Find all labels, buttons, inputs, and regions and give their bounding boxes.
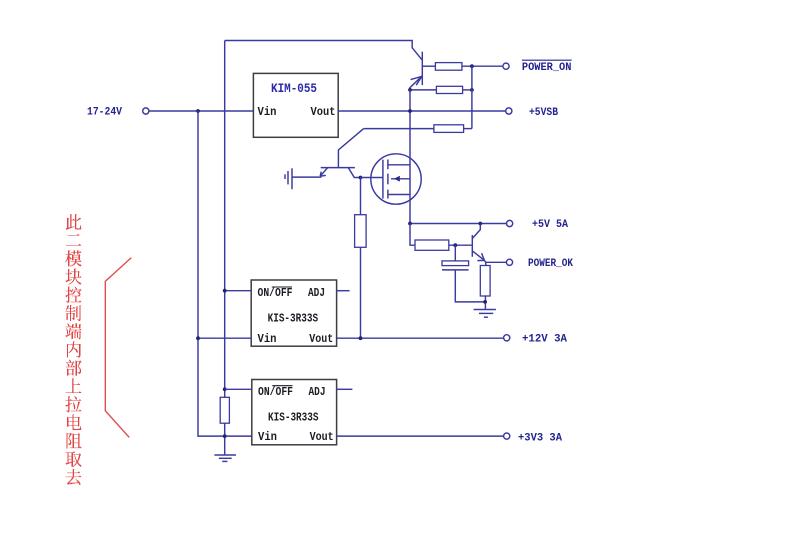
svg-text:POWER_ON: POWER_ON: [522, 62, 572, 74]
wire Q2 base path: [338, 129, 363, 168]
node Q3 collector junction: [478, 222, 482, 226]
svg-text:POWER_OK: POWER_OK: [528, 258, 573, 270]
svg-text:ADJ: ADJ: [308, 287, 325, 300]
wire KIM Vout to +5VSB: [338, 110, 506, 112]
svg-text:+5V 5A: +5V 5A: [532, 219, 568, 231]
node input junction: [196, 109, 200, 113]
resistor R2: [410, 86, 472, 93]
KIS-3R33S module U2: [251, 280, 336, 346]
wire U3 ADJ stub: [337, 388, 353, 390]
node +3V3 terminal: [504, 432, 563, 444]
hanzi 模: [66, 250, 83, 266]
ground GND3 (bottom left): [214, 455, 236, 461]
svg-text:+3V3 3A: +3V3 3A: [518, 432, 562, 444]
transistor Q2 (mid left): [320, 168, 360, 178]
svg-text:17-24V: 17-24V: [87, 107, 122, 119]
wire left vertical bus x=198: [198, 111, 252, 436]
resistor R1: [435, 63, 503, 71]
wire emitter to POWER_OK: [484, 260, 506, 262]
hanzi 制: [66, 305, 82, 321]
wire U2 Vin pin: [198, 337, 251, 339]
wire second vertical bus x=224.7 with top run: [225, 41, 422, 60]
svg-text:KIM-055: KIM-055: [271, 82, 317, 96]
wire U2 ON/OFF pin: [225, 290, 252, 292]
node U3 ON/OFF junction: [223, 387, 227, 391]
node R2 right junction: [470, 88, 474, 92]
wire U3 ON/OFF pin: [225, 388, 252, 390]
wire U3 Vout to +3V3: [337, 435, 504, 437]
ground GND2 (under R5): [474, 310, 496, 318]
node +5V terminal: [507, 219, 569, 231]
wire right vertical x=471.9: [471, 66, 473, 128]
hanzi 块: [66, 269, 82, 285]
transistor Q1 (PNP, top): [410, 52, 435, 90]
node R5 bottom junction: [483, 300, 487, 304]
hanzi 去: [66, 469, 82, 485]
node POWER_OK terminal: [506, 258, 573, 270]
node 17-24V input terminal: [87, 107, 149, 119]
KIS-3R33S module U3: [252, 380, 337, 445]
wire bus x=224.7 down to module2: [224, 41, 226, 398]
hanzi 内: [67, 342, 81, 358]
resistor R5 (vertical): [480, 262, 490, 309]
svg-text:Vout: Vout: [311, 106, 336, 119]
svg-text:Vout: Vout: [309, 333, 333, 346]
svg-text:KIS-3R33S: KIS-3R33S: [268, 412, 319, 425]
svg-text:ON/OFF: ON/OFF: [258, 287, 293, 300]
node R6 / +12V junction: [359, 336, 363, 340]
svg-text:ON/OFF: ON/OFF: [258, 386, 293, 399]
node POWER_ON junction: [470, 64, 474, 68]
hanzi 此: [66, 214, 82, 230]
hanzi 拉: [66, 396, 82, 412]
hanzi 端: [66, 323, 82, 339]
KIM-055 module U1: [253, 73, 338, 137]
hanzi 取: [66, 451, 82, 467]
svg-text:Vin: Vin: [258, 333, 277, 346]
resistor R7 (vertical on bus): [220, 397, 229, 455]
node +12V terminal: [504, 334, 568, 346]
node U3 Vin / R7 junction: [223, 434, 227, 438]
node +5VSB terminal: [506, 107, 559, 119]
wire U2 ADJ stub: [337, 290, 350, 292]
resistor R3: [364, 125, 472, 133]
hanzi 阻: [67, 433, 82, 449]
hanzi 电: [67, 414, 82, 430]
node U2 ON/OFF junction: [223, 289, 227, 293]
capacitor C1: [442, 245, 485, 302]
node U2 Vin junction: [196, 336, 200, 340]
wire input to KIM-055 Vin: [149, 110, 253, 112]
red annotation text column: [66, 214, 83, 485]
hanzi 上: [66, 378, 82, 393]
svg-text:Vin: Vin: [258, 106, 277, 119]
node M1 source junction: [408, 222, 412, 226]
node gate junction: [359, 176, 363, 180]
wire drain vertical x=410: [409, 90, 411, 224]
svg-text:KIS-3R33S: KIS-3R33S: [268, 313, 319, 326]
transistor Q3 (POWER_OK): [472, 224, 484, 261]
node Q1 emitter junction: [408, 88, 412, 92]
wire U2 Vout to +12V: [337, 337, 504, 339]
red annotation bracket: [105, 258, 131, 438]
wire +5V rail: [410, 223, 507, 225]
resistor R6 (vertical under gate node): [355, 178, 367, 339]
svg-text:Vin: Vin: [258, 431, 277, 444]
resistor R4 (horizontal to Q3 base): [410, 224, 472, 251]
MOSFET M1: [371, 154, 421, 204]
node Q3 base / C1 junction: [453, 243, 457, 247]
hanzi 二: [66, 234, 82, 246]
svg-text:+5VSB: +5VSB: [529, 107, 558, 119]
svg-text:ADJ: ADJ: [309, 386, 326, 399]
wire gate lead: [361, 177, 383, 179]
node drain junction on +5VSB wire: [408, 109, 412, 113]
hanzi 部: [66, 360, 82, 376]
hanzi 控: [66, 287, 82, 303]
svg-text:Vout: Vout: [310, 431, 334, 444]
ground GND1 (left, rotated): [285, 168, 322, 189]
svg-text:+12V 3A: +12V 3A: [522, 334, 567, 346]
node POWER_ON terminal: [503, 60, 572, 74]
